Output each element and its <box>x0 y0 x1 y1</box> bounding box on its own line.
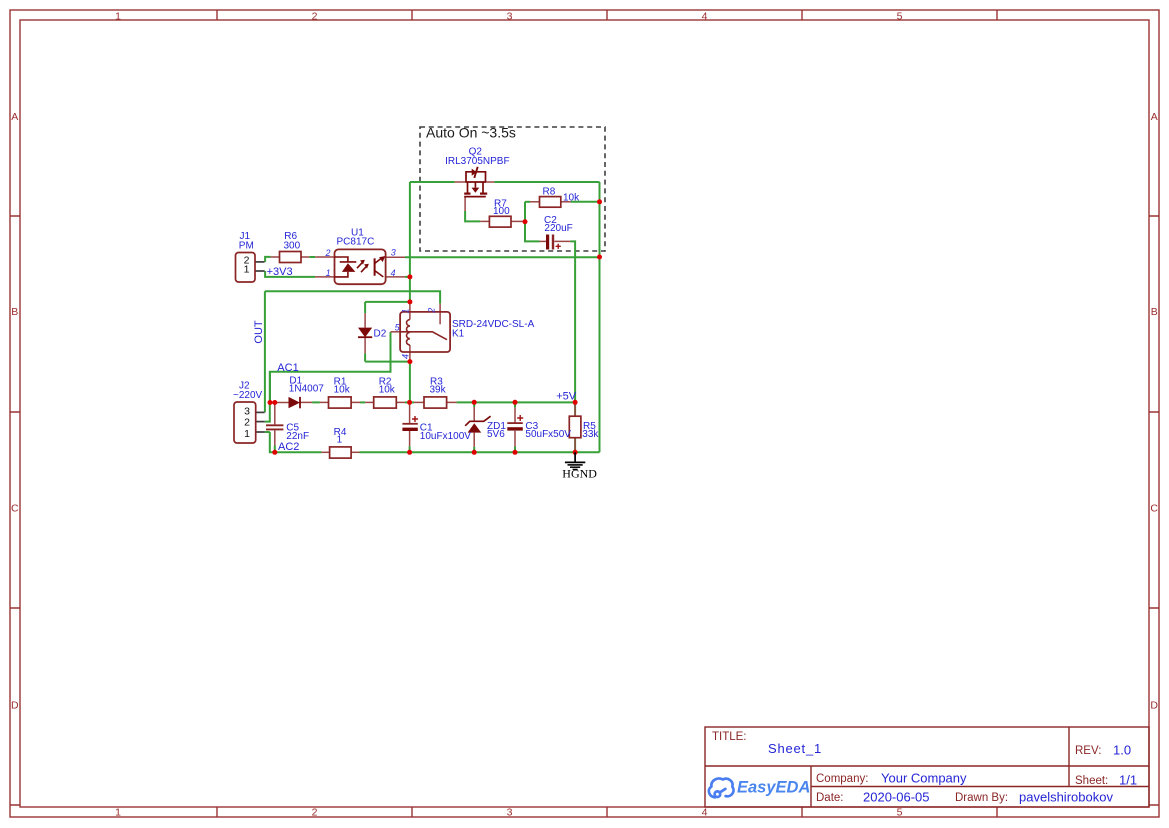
svg-text:2: 2 <box>427 308 437 314</box>
svg-text:pavelshirobokov: pavelshirobokov <box>1019 790 1113 805</box>
svg-text:D: D <box>1150 700 1158 712</box>
svg-text:Date:: Date: <box>816 792 844 804</box>
svg-text:2020-06-05: 2020-06-05 <box>863 790 930 805</box>
svg-text:4: 4 <box>391 268 396 278</box>
svg-text:PM: PM <box>239 241 254 252</box>
svg-text:B: B <box>1151 306 1158 318</box>
svg-text:Sheet_1: Sheet_1 <box>768 741 822 756</box>
svg-text:C: C <box>1150 503 1158 515</box>
svg-text:1: 1 <box>115 806 121 818</box>
svg-text:D2: D2 <box>374 328 387 339</box>
svg-text:1: 1 <box>244 263 250 275</box>
svg-text:Auto On ~3.5s: Auto On ~3.5s <box>426 125 516 141</box>
svg-text:10k: 10k <box>334 385 351 396</box>
svg-text:4: 4 <box>702 10 708 22</box>
svg-text:EasyEDA: EasyEDA <box>737 779 810 797</box>
svg-text:5: 5 <box>897 806 903 818</box>
svg-text:1: 1 <box>337 435 343 446</box>
svg-text:B: B <box>11 306 18 318</box>
svg-text:33k: 33k <box>582 429 599 440</box>
svg-text:1: 1 <box>401 309 411 314</box>
svg-text:1/1: 1/1 <box>1119 773 1137 788</box>
svg-text:SRD-24VDC-SL-A: SRD-24VDC-SL-A <box>452 319 535 330</box>
svg-text:4: 4 <box>400 354 410 359</box>
svg-text:AC2: AC2 <box>278 441 299 453</box>
svg-text:R8: R8 <box>543 186 556 197</box>
svg-text:1: 1 <box>115 10 121 22</box>
svg-text:REV:: REV: <box>1075 745 1101 757</box>
svg-text:100: 100 <box>493 206 510 217</box>
svg-text:Drawn By:: Drawn By: <box>955 792 1008 804</box>
svg-text:3: 3 <box>244 405 250 417</box>
svg-text:1: 1 <box>244 428 250 440</box>
svg-text:2: 2 <box>312 10 318 22</box>
svg-text:+3V3: +3V3 <box>267 266 293 278</box>
svg-text:Company:: Company: <box>816 773 868 785</box>
svg-text:K1: K1 <box>452 329 465 340</box>
svg-text:220uF: 220uF <box>544 223 572 234</box>
svg-text:TITLE:: TITLE: <box>712 731 747 743</box>
svg-text:D: D <box>11 700 19 712</box>
svg-text:1: 1 <box>326 268 331 278</box>
svg-text:2: 2 <box>244 417 250 429</box>
svg-text:50uFx50V: 50uFx50V <box>525 429 571 440</box>
svg-text:10k: 10k <box>563 192 580 203</box>
svg-text:1N4007: 1N4007 <box>289 384 324 395</box>
svg-text:3: 3 <box>391 248 396 258</box>
svg-text:3: 3 <box>507 10 513 22</box>
svg-text:Sheet:: Sheet: <box>1075 775 1108 787</box>
svg-text:A: A <box>11 111 18 123</box>
svg-text:2: 2 <box>312 806 318 818</box>
svg-text:10k: 10k <box>379 385 396 396</box>
svg-text:39k: 39k <box>430 385 447 396</box>
svg-text:C: C <box>11 503 19 515</box>
svg-text:HGND: HGND <box>562 467 597 481</box>
svg-text:3: 3 <box>507 806 513 818</box>
svg-text:AC1: AC1 <box>277 362 298 374</box>
svg-text:22nF: 22nF <box>286 431 309 442</box>
svg-text:IRL3705NPBF: IRL3705NPBF <box>445 156 509 167</box>
svg-text:A: A <box>1151 111 1158 123</box>
svg-text:PC817C: PC817C <box>337 237 375 248</box>
svg-text:5V6: 5V6 <box>487 429 505 440</box>
svg-text:Your Company: Your Company <box>881 771 967 786</box>
svg-text:2: 2 <box>325 248 331 258</box>
svg-text:300: 300 <box>284 241 301 252</box>
svg-text:10uFx100V: 10uFx100V <box>420 431 471 442</box>
svg-text:1.0: 1.0 <box>1113 743 1131 758</box>
svg-text:+5V: +5V <box>556 390 577 402</box>
svg-text:4: 4 <box>702 806 708 818</box>
svg-text:5: 5 <box>897 10 903 22</box>
svg-text:~220V: ~220V <box>233 390 263 401</box>
svg-text:OUT: OUT <box>253 320 265 344</box>
